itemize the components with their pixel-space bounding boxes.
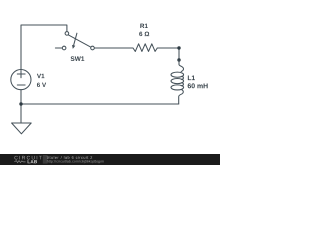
- wire bottom rail from inductor bottom to left junction: [21, 103, 179, 105]
- label 6 ohm: [139, 32, 149, 37]
- label R1: [140, 24, 147, 28]
- wire resistor right lead to corner node: [157, 47, 179, 49]
- resistor R1: [133, 24, 157, 52]
- minus sign: [17, 84, 25, 86]
- switch left terminal: [62, 46, 66, 50]
- inductor loop 1: [171, 72, 184, 77]
- inductor loop 3: [171, 85, 184, 90]
- wire corner down to inductor top terminal: [178, 48, 180, 60]
- switch actuator arrow shaft: [74, 33, 77, 45]
- label SW1: [71, 56, 85, 61]
- plus sign: [17, 71, 25, 78]
- inductor top entry hook: [179, 60, 184, 72]
- wire V1 minus terminal down to bottom junction: [20, 90, 22, 104]
- ground: [12, 123, 32, 134]
- logo CIRCUIT: [14, 156, 41, 160]
- banner url text: [47, 160, 104, 163]
- switch left stub wire: [55, 47, 62, 49]
- switch actuator arrowhead: [72, 45, 75, 49]
- banner: [0, 154, 220, 165]
- node dot bottom junction: [19, 102, 22, 105]
- wire switch right terminal to resistor left lead: [94, 47, 133, 49]
- switch SW1: [55, 32, 94, 61]
- switch blade: [68, 35, 91, 47]
- inductor turn crossing 1: [182, 76, 184, 79]
- node dot at inductor top terminal: [177, 58, 180, 61]
- inductor turn crossing 2: [182, 83, 184, 86]
- logo waveform: [14, 161, 25, 163]
- banner title text: [47, 156, 92, 159]
- inductor L1: [171, 60, 208, 104]
- logo LAB: [28, 160, 37, 163]
- wire junction down to ground: [20, 104, 22, 123]
- label L1: [188, 76, 195, 81]
- switch top terminal: [65, 32, 69, 36]
- node dot at top-right corner: [177, 46, 180, 49]
- switch right terminal: [91, 46, 95, 50]
- logo block: [43, 155, 48, 164]
- label 60 mH: [188, 83, 208, 88]
- label 6 V: [37, 83, 46, 87]
- wire top-left loop from V1 plus terminal to switch top terminal: [21, 25, 67, 70]
- label V1: [37, 74, 44, 78]
- voltage source V1: [11, 70, 46, 90]
- inductor bottom exit hook: [179, 90, 184, 104]
- inductor loop 2: [171, 79, 184, 84]
